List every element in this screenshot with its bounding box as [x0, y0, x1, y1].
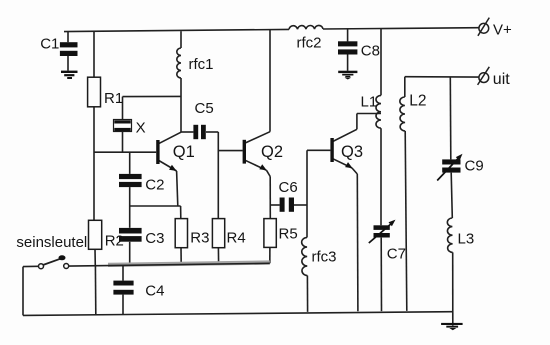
svg-text:R2: R2	[105, 232, 124, 249]
svg-text:rfc3: rfc3	[312, 249, 337, 266]
svg-text:Q2: Q2	[261, 143, 283, 161]
svg-text:rfc2: rfc2	[297, 35, 322, 52]
svg-text:C8: C8	[361, 43, 380, 60]
svg-text:X: X	[136, 119, 146, 136]
svg-text:V+: V+	[493, 22, 512, 39]
svg-text:C7: C7	[387, 246, 406, 263]
svg-text:C6: C6	[279, 179, 298, 196]
svg-text:R4: R4	[227, 230, 246, 247]
svg-text:rfc1: rfc1	[189, 56, 214, 73]
svg-text:Q3: Q3	[341, 143, 363, 161]
svg-text:seinsleutel: seinsleutel	[16, 234, 87, 251]
svg-text:C4: C4	[145, 283, 164, 300]
svg-text:uit: uit	[493, 71, 510, 88]
svg-text:Q1: Q1	[173, 143, 195, 161]
svg-text:L1: L1	[361, 94, 378, 111]
svg-text:R3: R3	[190, 230, 209, 247]
svg-text:R5: R5	[279, 226, 298, 243]
svg-text:C1: C1	[40, 36, 59, 53]
svg-text:R1: R1	[104, 90, 123, 107]
svg-text:L2: L2	[409, 93, 426, 110]
svg-text:C9: C9	[465, 157, 484, 174]
svg-text:L3: L3	[458, 231, 475, 248]
svg-text:C5: C5	[195, 100, 214, 117]
svg-text:C3: C3	[145, 230, 164, 247]
svg-text:C2: C2	[145, 176, 164, 193]
